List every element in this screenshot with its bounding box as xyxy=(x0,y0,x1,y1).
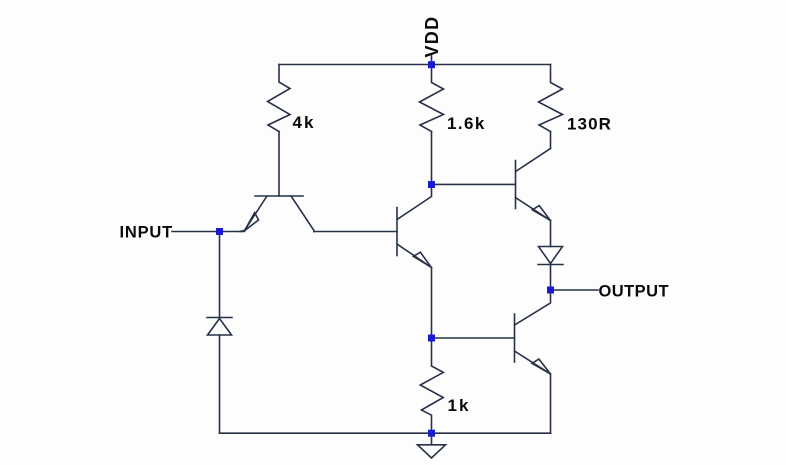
resistor R4 1k xyxy=(420,338,443,433)
wire Q2 emitter to node N2 xyxy=(431,268,433,339)
wire D1 to bottom rail xyxy=(219,335,221,433)
node VDD junction xyxy=(428,61,435,68)
ground xyxy=(418,437,446,458)
wire Q3 emitter to diode D2 xyxy=(550,221,552,247)
transistor Q4 xyxy=(515,290,551,374)
transistor Q2 xyxy=(397,184,432,267)
node N2 junction xyxy=(428,335,435,342)
wire node N2 to Q4 base xyxy=(432,337,515,339)
label 4k xyxy=(293,113,316,132)
label 1k xyxy=(448,396,471,415)
wire Q4 emitter to bottom rail xyxy=(550,374,552,433)
wire D2 to node OUTPUT xyxy=(550,265,552,291)
node ground junction xyxy=(428,430,435,437)
svg-text:130R: 130R xyxy=(567,115,612,134)
node INPUT junction xyxy=(216,228,223,235)
svg-text:VDD: VDD xyxy=(422,16,442,58)
resistor R1 4k xyxy=(268,65,291,132)
label 1.6k xyxy=(447,114,486,133)
svg-text:4k: 4k xyxy=(293,113,316,132)
wire R3 to Q3 collector xyxy=(550,132,552,149)
label INPUT xyxy=(120,224,174,242)
diode D1 xyxy=(207,318,232,336)
node N1 junction xyxy=(428,181,435,188)
wire bottom rail xyxy=(220,432,551,434)
wire VDD rail xyxy=(279,64,551,66)
wire R1 to Q1 base xyxy=(278,132,280,197)
svg-text:1.6k: 1.6k xyxy=(447,114,486,133)
svg-text:OUTPUT: OUTPUT xyxy=(599,283,670,301)
wire Q1 collector to Q2 base xyxy=(314,231,397,233)
wire OUTPUT xyxy=(551,289,599,291)
resistor R3 130R xyxy=(539,65,563,132)
wire INPUT node to diode D1 xyxy=(219,232,221,318)
label OUTPUT xyxy=(599,283,670,301)
svg-text:1k: 1k xyxy=(448,396,471,415)
node OUTPUT junction xyxy=(547,287,554,294)
transistor Q3 xyxy=(516,149,551,221)
label 130R xyxy=(567,115,612,134)
wire R2 to node N1 xyxy=(431,132,433,185)
wire VDD stub xyxy=(431,54,433,65)
wire INPUT to Q1 emitter xyxy=(172,231,245,233)
label VDD xyxy=(422,16,442,58)
resistor R2 1.6k xyxy=(420,65,444,132)
transistor Q1 xyxy=(240,196,314,232)
svg-text:INPUT: INPUT xyxy=(120,224,174,242)
diode D2 xyxy=(538,247,563,265)
wire node N1 to Q3 base xyxy=(432,183,516,185)
